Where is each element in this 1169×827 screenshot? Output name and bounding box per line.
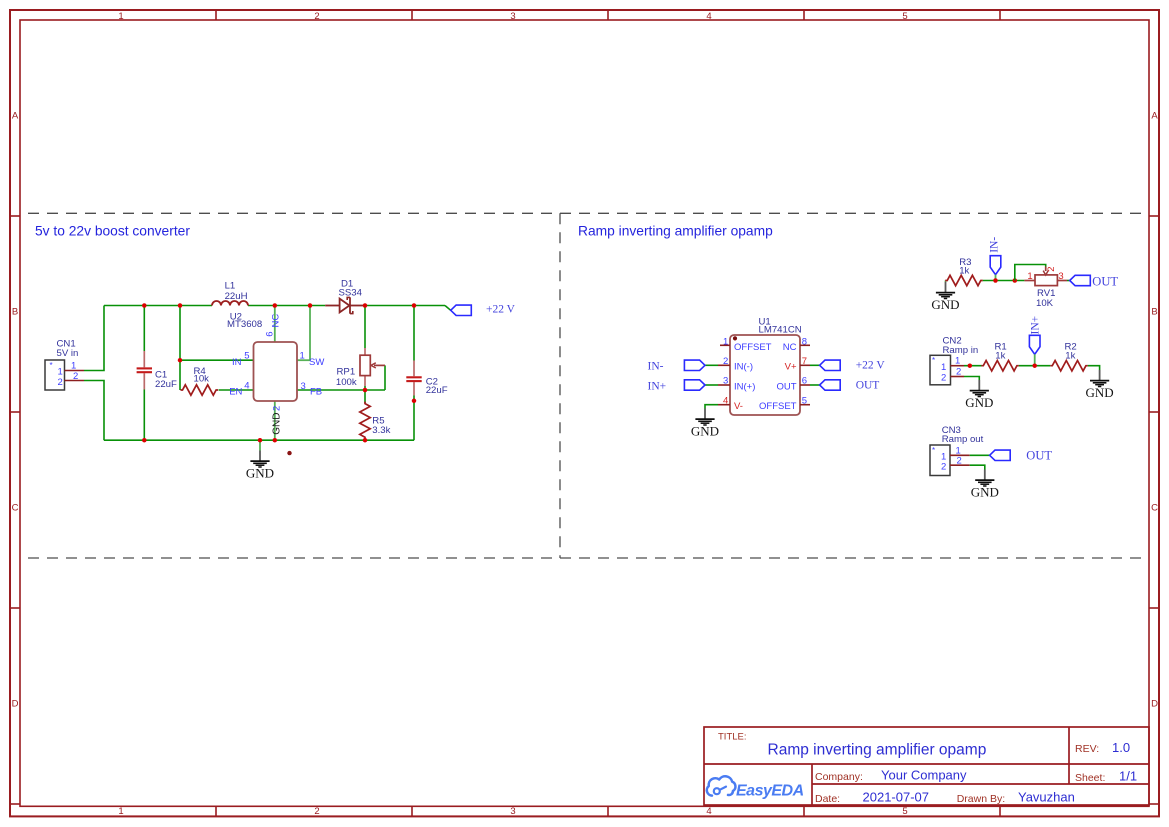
- svg-text:RP1: RP1: [337, 367, 356, 378]
- dashed section divider bottom: [28, 557, 1146, 559]
- wire NC pin to rail: [274, 306, 276, 343]
- svg-text:1: 1: [723, 337, 728, 348]
- svg-text:2: 2: [956, 367, 961, 378]
- svg-text:EasyEDA: EasyEDA: [736, 783, 804, 800]
- node: top rail junctions: [142, 303, 416, 308]
- svg-text:GND: GND: [691, 423, 719, 438]
- wire R1 to R2: [1019, 365, 1050, 367]
- ground at R2: [1086, 370, 1114, 400]
- svg-text:2: 2: [73, 371, 78, 382]
- title block frame: [704, 727, 1149, 805]
- resistor R3: [945, 257, 983, 285]
- svg-text:GND: GND: [971, 485, 999, 500]
- resistor R4: [181, 366, 219, 395]
- ruler column numbers top: [118, 11, 907, 22]
- svg-text:Ramp in: Ramp in: [943, 345, 979, 356]
- svg-text:5: 5: [802, 396, 807, 407]
- op-amp U1 LM741CN: [718, 317, 810, 415]
- ruler row letters right: [1151, 111, 1158, 710]
- svg-text:3: 3: [723, 376, 728, 387]
- svg-text:FB: FB: [310, 387, 322, 398]
- node: stray junction dot: [287, 451, 291, 455]
- svg-text:2: 2: [271, 406, 282, 411]
- net flag IN+ vertical: [1029, 316, 1041, 366]
- ground at R3: [931, 281, 959, 313]
- svg-text:V-: V-: [734, 401, 743, 412]
- svg-text:SW: SW: [309, 357, 324, 368]
- svg-text:1: 1: [955, 356, 960, 367]
- wire V- pin to ground: [705, 405, 718, 409]
- net flag IN+ at U1: [648, 380, 706, 393]
- svg-text:OUT: OUT: [1092, 275, 1118, 289]
- svg-text:C: C: [12, 503, 19, 514]
- title block title text: [768, 742, 987, 759]
- net flag OUT at U1: [820, 380, 880, 392]
- ruler tick marks bottom: [216, 806, 1000, 816]
- net flag IN- vertical: [989, 237, 1001, 281]
- svg-text:IN(-): IN(-): [734, 362, 753, 373]
- svg-text:REV:: REV:: [1075, 743, 1099, 755]
- svg-text:IN-: IN-: [989, 237, 1001, 253]
- svg-text:3: 3: [301, 381, 306, 392]
- svg-text:OUT: OUT: [1026, 448, 1052, 462]
- svg-text:D: D: [1151, 699, 1158, 710]
- title block TITLE label: [718, 732, 747, 743]
- wire IN- flag to pin2: [705, 364, 718, 366]
- svg-text:IN: IN: [232, 357, 242, 368]
- node: C2 lower junction: [412, 399, 417, 404]
- resistor R5: [360, 402, 391, 440]
- title block REV: [1075, 740, 1130, 755]
- ruler column numbers bottom: [118, 806, 907, 817]
- IC U2 MT3608: [227, 312, 324, 435]
- title block Sheet: [1075, 769, 1137, 784]
- svg-text:5V in: 5V in: [57, 348, 79, 359]
- svg-text:2: 2: [941, 461, 946, 472]
- wire CN3 pin1 to OUT flag: [970, 454, 990, 456]
- node: IN branch junction: [178, 358, 183, 363]
- svg-text:2: 2: [58, 377, 63, 388]
- svg-text:LM741CN: LM741CN: [759, 325, 802, 336]
- svg-text:1.0: 1.0: [1112, 740, 1130, 755]
- net flag IN- at U1: [648, 360, 706, 373]
- wire EN pin: [219, 389, 254, 391]
- svg-text:TITLE:: TITLE:: [718, 732, 747, 743]
- node: bottom rail junctions: [142, 438, 367, 443]
- wire RP1 to R5: [364, 390, 366, 403]
- wire OUT pin to flag: [810, 384, 820, 386]
- svg-text:6: 6: [802, 376, 807, 387]
- node: FB junction: [363, 388, 368, 393]
- svg-text:Company:: Company:: [815, 771, 863, 783]
- title block Company: [815, 768, 967, 783]
- svg-text:D: D: [12, 699, 19, 710]
- svg-text:SS34: SS34: [339, 287, 363, 298]
- wire wiper loop: [1015, 265, 1046, 281]
- section title: 5v to 22v boost converter: [35, 224, 190, 239]
- svg-text:C: C: [1151, 503, 1158, 514]
- svg-text:OUT: OUT: [856, 380, 880, 392]
- svg-text:5: 5: [902, 11, 907, 22]
- wire C2 branch: [413, 306, 415, 441]
- svg-text:EN: EN: [229, 387, 242, 398]
- svg-text:100k: 100k: [336, 377, 357, 388]
- svg-text:IN(+): IN(+): [734, 381, 755, 392]
- diode D1 SS34: [325, 278, 365, 313]
- ruler tick marks top: [216, 10, 1000, 20]
- svg-text:*: *: [932, 356, 935, 365]
- wire IN+ flag to pin3: [705, 384, 718, 386]
- svg-text:10k: 10k: [194, 374, 210, 385]
- wire C1 branch: [143, 306, 145, 441]
- wire bottom rail: [104, 439, 414, 441]
- svg-text:*: *: [932, 446, 935, 455]
- node: IN- junction: [993, 278, 998, 283]
- wire CN2 pin1 to R1: [964, 365, 982, 367]
- svg-text:3: 3: [510, 806, 515, 817]
- svg-text:MT3608: MT3608: [227, 319, 262, 330]
- svg-text:1: 1: [300, 350, 305, 361]
- svg-text:B: B: [1151, 307, 1157, 318]
- svg-text:2: 2: [941, 373, 946, 384]
- svg-text:OFFSET: OFFSET: [734, 342, 772, 353]
- wire CN2 pin2 to ground: [964, 377, 979, 381]
- svg-text:V+: V+: [785, 362, 797, 373]
- svg-text:1/1: 1/1: [1119, 769, 1137, 784]
- dashed section divider top: [28, 212, 1146, 214]
- capacitor C1: [137, 351, 177, 390]
- svg-text:4: 4: [244, 380, 249, 391]
- svg-text:10K: 10K: [1036, 298, 1054, 309]
- trimmer RV1: [1024, 267, 1067, 309]
- dashed section divider vertical: [559, 213, 561, 558]
- ground at U1 V-: [691, 409, 719, 439]
- ground at CN2 pin2: [965, 380, 993, 410]
- svg-text:4: 4: [706, 11, 711, 22]
- svg-text:1: 1: [118, 11, 123, 22]
- section title: Ramp inverting amplifier opamp: [578, 224, 773, 239]
- net flag OUT at CN3: [990, 448, 1053, 462]
- svg-text:Yavuzhan: Yavuzhan: [1018, 790, 1075, 805]
- potentiometer RP1: [336, 348, 385, 388]
- svg-text:2021-07-07: 2021-07-07: [863, 790, 930, 805]
- wire GND stub boost: [259, 440, 261, 450]
- connector CN1: [45, 339, 84, 390]
- svg-text:3.3k: 3.3k: [372, 425, 390, 436]
- svg-text:2: 2: [314, 806, 319, 817]
- svg-text:GND: GND: [246, 466, 274, 481]
- svg-text:1: 1: [1027, 271, 1032, 282]
- wire FB to RP1: [297, 365, 385, 390]
- svg-text:22uF: 22uF: [426, 385, 448, 396]
- capacitor C2: [406, 361, 447, 397]
- svg-text:+22 V: +22 V: [856, 360, 886, 372]
- ruler row letters left: [12, 111, 19, 710]
- svg-text:NC: NC: [270, 314, 281, 328]
- svg-text:Ramp out: Ramp out: [942, 434, 984, 445]
- wire R3 to RV1: [983, 280, 1025, 282]
- inductor L1: [212, 281, 248, 306]
- node: CN2 pin1 junction: [968, 363, 973, 368]
- wire top rail left: [104, 305, 212, 307]
- svg-text:2: 2: [1046, 267, 1057, 272]
- svg-text:Your Company: Your Company: [881, 768, 967, 783]
- svg-text:2: 2: [314, 11, 319, 22]
- svg-text:NC: NC: [783, 342, 797, 353]
- wire top rail middle: [248, 305, 325, 307]
- title block Date and Drawn By: [815, 790, 1075, 805]
- svg-text:5: 5: [244, 350, 249, 361]
- svg-text:2: 2: [723, 356, 728, 367]
- node: IN+ junction: [1032, 363, 1037, 368]
- ground boost converter: [246, 451, 274, 481]
- wire CN1 pin1 to rail: [84, 306, 104, 371]
- connector CN2: [930, 335, 978, 385]
- svg-text:IN-: IN-: [648, 361, 664, 373]
- net flag +22 V: [451, 304, 516, 316]
- wire R2 to ground: [1088, 366, 1100, 370]
- wire top rail right: [365, 306, 451, 311]
- svg-text:Ramp inverting amplifier opamp: Ramp inverting amplifier opamp: [768, 742, 987, 759]
- ruler tick marks left and right: [10, 216, 1159, 804]
- wire RP1 top branch: [364, 306, 366, 391]
- svg-text:OFFSET: OFFSET: [759, 401, 797, 412]
- svg-text:Drawn By:: Drawn By:: [957, 793, 1005, 805]
- svg-text:1: 1: [941, 362, 946, 373]
- resistor R2: [1050, 342, 1088, 371]
- svg-text:2: 2: [957, 455, 962, 466]
- svg-text:Date:: Date:: [815, 793, 840, 805]
- wire RV1 to OUT flag: [1067, 280, 1070, 282]
- svg-text:IN+: IN+: [648, 380, 667, 392]
- svg-text:7: 7: [802, 356, 807, 367]
- net flag OUT at RV1: [1070, 275, 1119, 289]
- svg-text:A: A: [1151, 111, 1158, 122]
- svg-text:5v to 22v boost converter: 5v to 22v boost converter: [35, 224, 190, 239]
- svg-text:Sheet:: Sheet:: [1075, 772, 1105, 784]
- svg-text:8: 8: [802, 337, 807, 348]
- svg-text:A: A: [12, 111, 19, 122]
- wire SW pin to rail: [297, 306, 310, 361]
- svg-text:1: 1: [71, 360, 76, 371]
- svg-text:*: *: [50, 361, 53, 370]
- wire CN3 pin2 to ground: [970, 465, 985, 469]
- wire IN pin: [180, 359, 254, 361]
- wire U2 GND pin to bottom rail: [274, 401, 276, 440]
- connector CN3: [930, 425, 984, 475]
- svg-text:3: 3: [1058, 271, 1063, 282]
- wire R4/IN branch vertical: [179, 306, 181, 391]
- svg-text:OUT: OUT: [776, 381, 796, 392]
- svg-text:1k: 1k: [1065, 350, 1075, 361]
- EasyEDA logo: [707, 776, 804, 799]
- svg-text:6: 6: [265, 331, 276, 336]
- svg-text:22uF: 22uF: [155, 379, 177, 390]
- svg-text:4: 4: [706, 806, 711, 817]
- svg-text:IN+: IN+: [1029, 316, 1041, 335]
- svg-text:1k: 1k: [959, 265, 969, 276]
- svg-text:GND: GND: [965, 395, 993, 410]
- wire V+ pin to flag: [810, 364, 820, 366]
- svg-text:1: 1: [118, 806, 123, 817]
- wire CN1 pin2 to bottom rail: [84, 381, 104, 441]
- ground at CN3: [971, 470, 999, 500]
- svg-text:GND: GND: [931, 297, 959, 312]
- svg-text:22uH: 22uH: [225, 291, 248, 302]
- svg-text:+22 V: +22 V: [486, 304, 516, 316]
- svg-text:4: 4: [723, 396, 728, 407]
- svg-text:Ramp inverting amplifier opamp: Ramp inverting amplifier opamp: [578, 224, 773, 239]
- net flag +22 V at U1: [820, 360, 886, 372]
- svg-text:5: 5: [902, 806, 907, 817]
- svg-text:GND: GND: [271, 413, 282, 435]
- svg-text:1k: 1k: [995, 350, 1005, 361]
- svg-text:GND: GND: [1086, 385, 1114, 400]
- svg-text:B: B: [12, 307, 18, 318]
- resistor R1: [981, 342, 1019, 371]
- node: wiper branch junction: [1013, 278, 1018, 283]
- svg-text:3: 3: [510, 11, 515, 22]
